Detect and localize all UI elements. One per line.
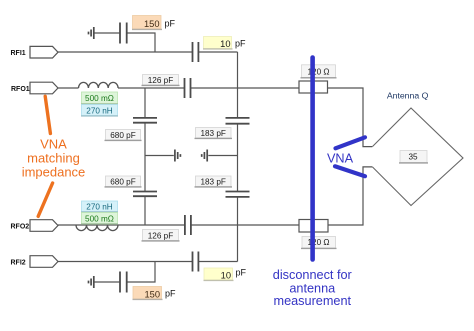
svg-text:pF: pF xyxy=(235,38,246,48)
svg-text:matching: matching xyxy=(27,150,80,165)
svg-text:pF: pF xyxy=(236,268,247,278)
svg-text:VNA: VNA xyxy=(40,136,67,151)
svg-text:183 pF: 183 pF xyxy=(200,178,226,187)
svg-text:500 mΩ: 500 mΩ xyxy=(85,215,114,224)
svg-text:126 pF: 126 pF xyxy=(148,76,174,85)
svg-text:680 pF: 680 pF xyxy=(110,178,136,187)
svg-text:pF: pF xyxy=(165,288,176,298)
svg-text:disconnect for: disconnect for xyxy=(273,268,353,282)
svg-text:10: 10 xyxy=(221,271,231,281)
svg-text:RFO1: RFO1 xyxy=(11,86,30,93)
svg-text:270 nH: 270 nH xyxy=(86,106,112,115)
svg-text:500 mΩ: 500 mΩ xyxy=(85,94,114,103)
svg-text:183 pF: 183 pF xyxy=(200,129,226,138)
svg-text:VNA: VNA xyxy=(327,152,354,166)
svg-text:10: 10 xyxy=(220,39,230,49)
svg-text:270 nH: 270 nH xyxy=(86,203,112,212)
svg-text:RFI2: RFI2 xyxy=(11,260,26,267)
svg-text:measurement: measurement xyxy=(274,294,352,308)
svg-text:680 pF: 680 pF xyxy=(110,131,136,140)
svg-text:126 pF: 126 pF xyxy=(148,232,174,241)
svg-text:150: 150 xyxy=(144,290,160,300)
svg-text:impedance: impedance xyxy=(22,164,86,179)
svg-text:pF: pF xyxy=(165,19,176,29)
svg-text:35: 35 xyxy=(408,153,418,162)
svg-text:RFI1: RFI1 xyxy=(11,50,26,57)
svg-text:RFO2: RFO2 xyxy=(11,223,30,230)
svg-text:150: 150 xyxy=(144,19,160,29)
svg-text:Antenna Q: Antenna Q xyxy=(387,91,429,101)
